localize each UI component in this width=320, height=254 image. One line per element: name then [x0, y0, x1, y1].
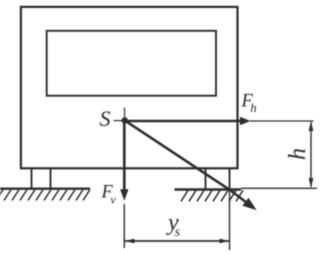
- right foot leg B: [229, 168, 231, 189]
- svg-text:Fh: Fh: [241, 92, 257, 116]
- outer cabinet body rectangle: [21, 7, 238, 168]
- inner panel rectangle: [47, 31, 216, 96]
- force F_h arrow shaft: [125, 120, 241, 123]
- F_h extension line to h dimension: [250, 120, 314, 122]
- F_h arrowhead: [240, 117, 251, 125]
- h dimension bottom arrowhead: [309, 178, 314, 188]
- F_v extension line to y_s dimension: [123, 204, 125, 248]
- y_s right arrowhead: [220, 239, 230, 244]
- resultant arrowhead: [242, 198, 256, 210]
- right ground line: [175, 188, 242, 190]
- left ground line: [0, 187, 90, 189]
- y_s right extension line below ground: [229, 191, 231, 251]
- left ground hatching: [0, 190, 90, 201]
- tick left of node S: [114, 120, 123, 122]
- left foot leg A: [31, 168, 33, 189]
- svg-text:Fv: Fv: [101, 183, 117, 207]
- force F_v arrow shaft: [123, 121, 126, 190]
- svg-text:S: S: [100, 106, 111, 131]
- svg-text:ys: ys: [166, 210, 181, 240]
- right ground hatching: [181, 190, 243, 201]
- h dimension top arrowhead: [309, 122, 314, 132]
- left foot leg B: [50, 168, 52, 189]
- ground extension line to h dimension: [241, 187, 317, 189]
- y_s dimension line: [125, 240, 229, 242]
- node S dot: [121, 117, 128, 124]
- y_s left arrowhead: [125, 239, 135, 244]
- right foot leg A: [205, 168, 207, 189]
- resultant force diagonal shaft: [125, 121, 246, 203]
- F_v arrowhead: [120, 189, 128, 201]
- h dimension line: [310, 122, 312, 187]
- svg-text:h: h: [285, 148, 311, 160]
- tick above node S: [124, 108, 126, 118]
